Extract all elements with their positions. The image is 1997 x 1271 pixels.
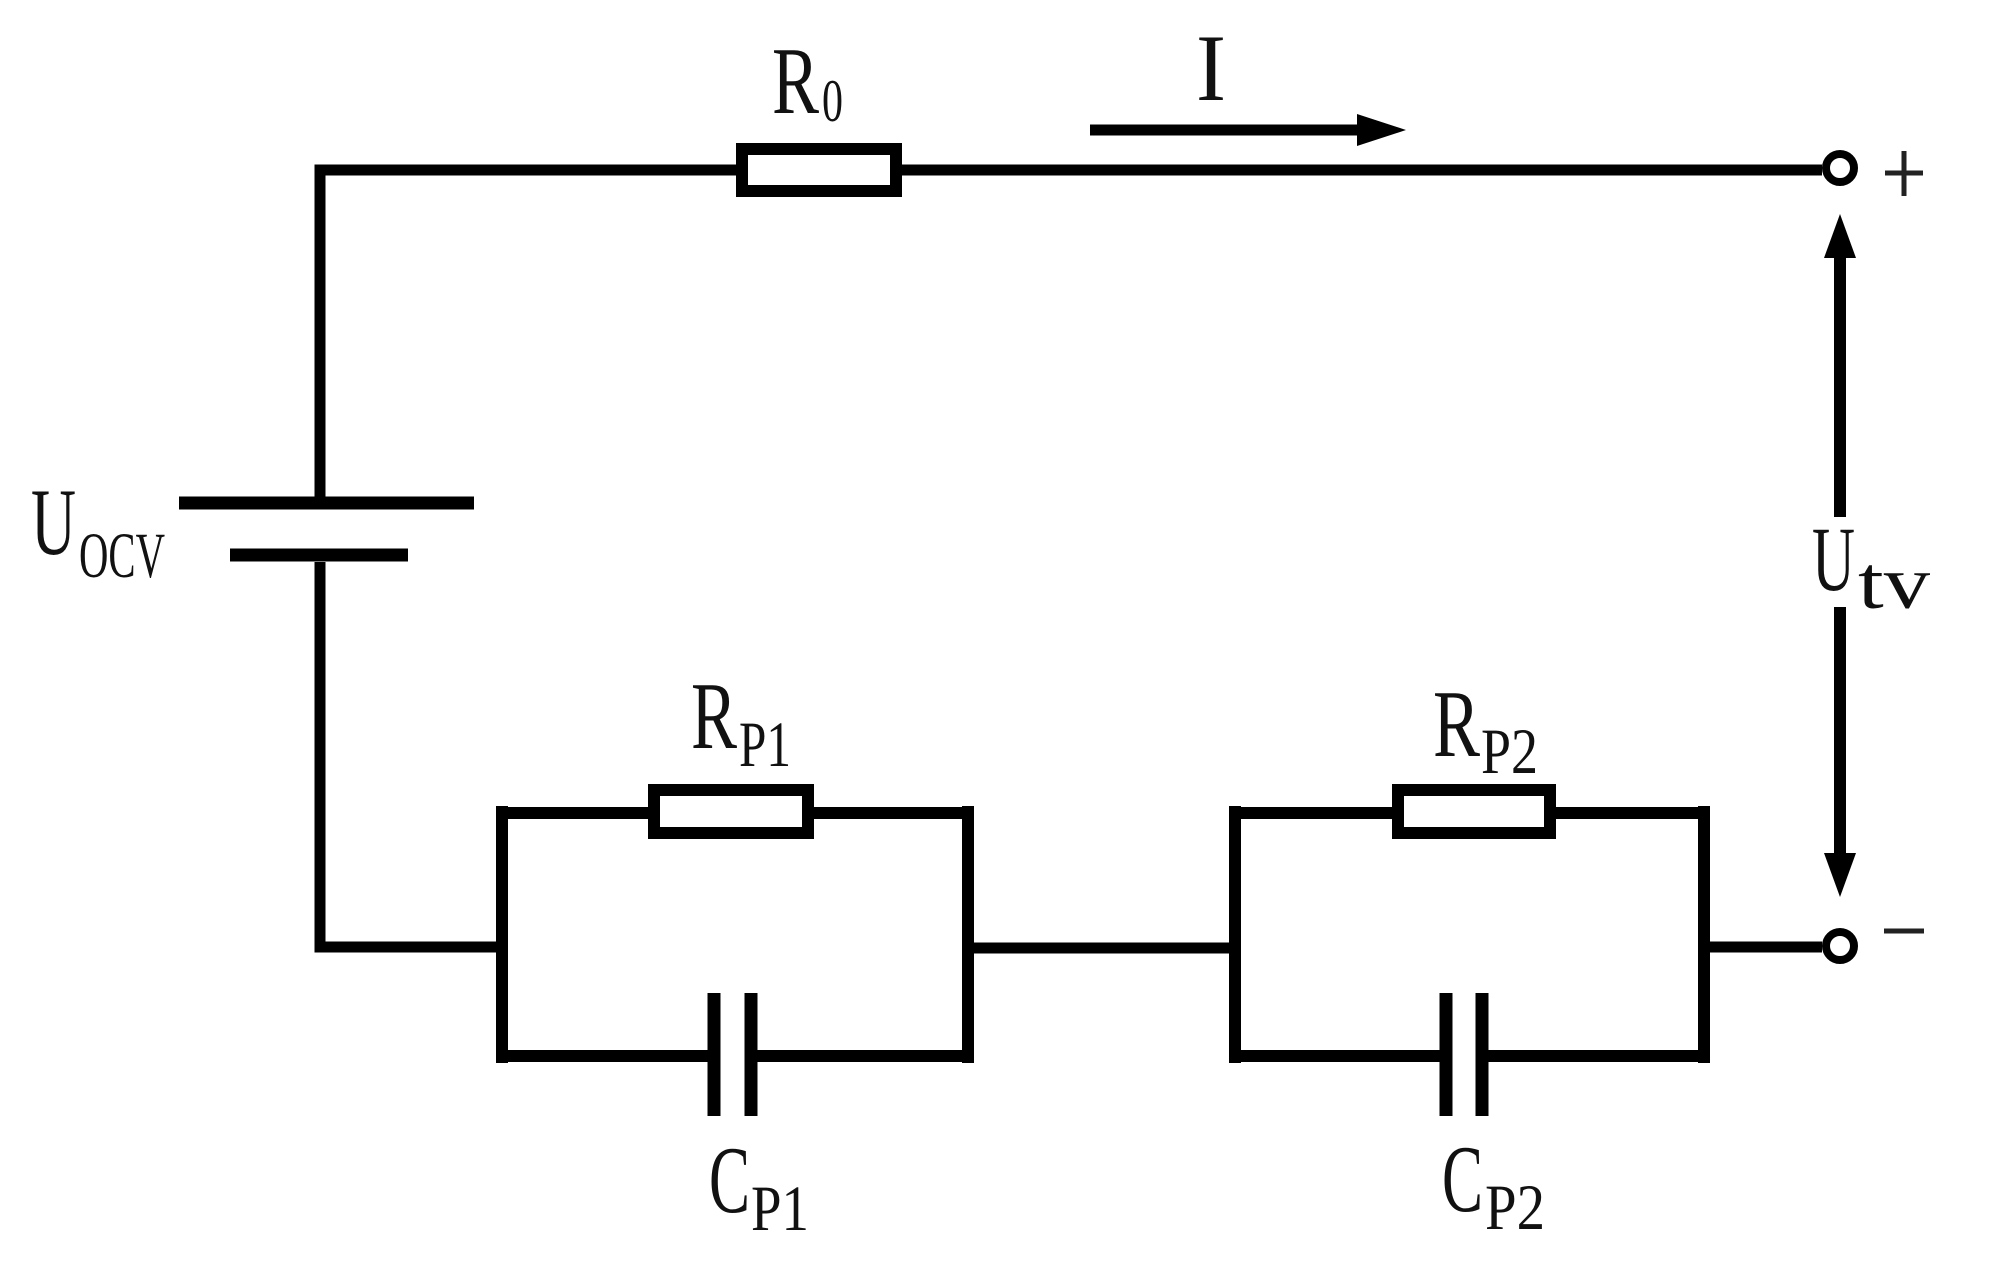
svg-text:P2: P2 bbox=[1481, 716, 1538, 788]
label R_P1 bbox=[691, 663, 791, 781]
label C_P2 bbox=[1442, 1126, 1545, 1244]
node: negative terminal bbox=[1826, 932, 1854, 960]
svg-text:R: R bbox=[691, 663, 737, 769]
svg-text:U: U bbox=[31, 469, 76, 575]
label U_OCV bbox=[31, 469, 165, 592]
resistor R_P1 bbox=[654, 790, 808, 833]
svg-text:C: C bbox=[1442, 1126, 1483, 1232]
wire: RC1 right edge bbox=[962, 806, 974, 1063]
resistor R_P2 bbox=[1398, 790, 1550, 833]
wire: battery positive up and across to R0 bbox=[320, 170, 736, 497]
label U_tv bbox=[1812, 508, 1931, 625]
label + bbox=[1885, 151, 1923, 196]
svg-text:OCV: OCV bbox=[79, 520, 165, 592]
resistor R0 bbox=[742, 149, 896, 191]
wire: RC2 to negative terminal bbox=[1704, 942, 1822, 953]
node: positive terminal bbox=[1826, 154, 1854, 182]
label R_P2 bbox=[1433, 671, 1538, 788]
battery U_OCV short plate bbox=[230, 549, 408, 562]
current arrow I bbox=[1090, 114, 1406, 146]
label - (minus) bbox=[1884, 929, 1924, 934]
label R0 bbox=[772, 28, 843, 134]
label C_P1 bbox=[709, 1127, 809, 1245]
wire: RC1 bottom edge right of C_P1 bbox=[750, 1050, 974, 1062]
svg-text:U: U bbox=[1812, 508, 1855, 610]
wire: battery negative down and across to RC1 bbox=[320, 562, 502, 947]
svg-text:R: R bbox=[1433, 671, 1480, 777]
capacitor C_P2 bbox=[1446, 993, 1482, 1116]
svg-text:C: C bbox=[709, 1127, 750, 1233]
wire: RC2 bottom edge left of C_P2 bbox=[1229, 1050, 1447, 1062]
battery U_OCV long plate bbox=[179, 497, 474, 510]
capacitor C_P1 bbox=[714, 993, 751, 1116]
svg-text:R: R bbox=[772, 28, 819, 134]
voltage arrow U_tv lower (pointing down) bbox=[1824, 607, 1856, 897]
wire: RC1 left edge bbox=[496, 806, 508, 1063]
svg-text:I: I bbox=[1196, 15, 1226, 121]
wire: RC1 to RC2 bbox=[968, 943, 1235, 954]
svg-text:tv: tv bbox=[1858, 542, 1931, 625]
wire: RC1 bottom edge left of C_P1 bbox=[496, 1050, 716, 1062]
wire: RC2 right edge bbox=[1698, 806, 1710, 1063]
wire: RC2 top edge bbox=[1229, 807, 1710, 819]
wire: RC2 bottom edge right of C_P2 bbox=[1481, 1050, 1710, 1062]
wire: RC2 left edge bbox=[1229, 806, 1241, 1063]
wire: RC1 top edge bbox=[496, 807, 974, 819]
voltage arrow U_tv upper (pointing up) bbox=[1824, 214, 1856, 517]
svg-text:0: 0 bbox=[822, 68, 843, 134]
svg-text:P1: P1 bbox=[751, 1173, 809, 1245]
svg-text:P2: P2 bbox=[1485, 1172, 1545, 1244]
svg-text:P1: P1 bbox=[739, 709, 791, 781]
wire: R0 to positive terminal bbox=[902, 165, 1822, 176]
